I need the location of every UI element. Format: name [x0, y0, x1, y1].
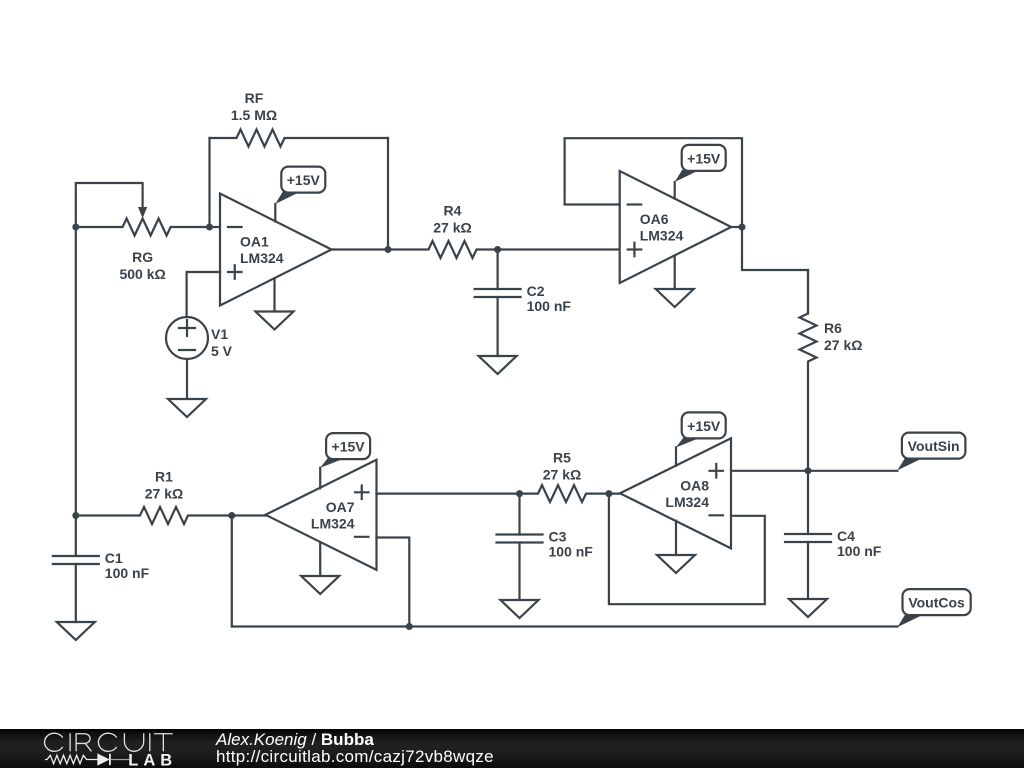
ground OA6 [656, 289, 694, 307]
value R4 27 k&#937; [433, 220, 471, 236]
svg-text:+15V: +15V [687, 418, 721, 434]
label C4 [837, 528, 855, 544]
value C1 100 nF [105, 565, 150, 581]
ground C2 [479, 356, 517, 374]
svg-text:1.5 MΩ: 1.5 MΩ [231, 107, 277, 123]
power flag +15V OA8 [676, 412, 726, 447]
potentiometer RG [76, 219, 210, 236]
value R1 27 k&#937; [145, 486, 183, 502]
svg-text:OA8: OA8 [680, 477, 709, 493]
net flag VoutCos [897, 589, 970, 627]
svg-text:R6: R6 [824, 320, 842, 336]
svg-text:RG: RG [132, 249, 153, 265]
svg-text:100 nF: 100 nF [549, 544, 594, 560]
wire OA6 Vplus pin [674, 182, 676, 199]
wire OA7 plus input [377, 493, 520, 495]
label R5 [553, 450, 571, 466]
svg-text:27 kΩ: 27 kΩ [433, 220, 471, 236]
svg-text:VoutCos: VoutCos [908, 595, 965, 611]
value C2 100 nF [527, 298, 572, 314]
wire OA1 minus input [210, 226, 221, 228]
op-amp OA1 [220, 194, 332, 306]
svg-text:OA1: OA1 [240, 234, 269, 250]
node junction OA7-minus-join [406, 623, 413, 630]
footer url [216, 747, 494, 766]
svg-text:LM324: LM324 [240, 250, 284, 266]
label C1 [105, 550, 123, 566]
value V1 5 V [211, 343, 233, 359]
value C4 100 nF [837, 543, 882, 559]
svg-text:27 kΩ: 27 kΩ [145, 486, 183, 502]
resistor R1 [76, 507, 266, 524]
label RF [245, 90, 264, 106]
label R1 [155, 469, 173, 485]
node junction RG-right [206, 224, 213, 231]
svg-text:100 nF: 100 nF [105, 565, 150, 581]
ground V1 [168, 399, 206, 417]
node junction OA6-out [739, 224, 746, 231]
power flag +15V OA1 [275, 167, 325, 204]
svg-text:5 V: 5 V [211, 343, 233, 359]
svg-text:500 kΩ: 500 kΩ [119, 266, 165, 282]
resistor R6 [800, 270, 817, 471]
voltage source V1 [166, 317, 208, 359]
svg-text:+15V: +15V [332, 439, 366, 455]
svg-text:C3: C3 [549, 529, 567, 545]
node junction R5-OA8out [605, 490, 612, 497]
node junction C3 [516, 490, 523, 497]
resistor R5 [520, 485, 621, 502]
svg-text:V1: V1 [211, 326, 228, 342]
ground OA1 [256, 312, 294, 330]
svg-text:27 kΩ: 27 kΩ [824, 337, 862, 353]
wire OA6 output [731, 226, 742, 228]
svg-text:R1: R1 [155, 469, 173, 485]
net flag VoutSin [897, 433, 965, 471]
value C3 100 nF [549, 544, 594, 560]
capacitor C2 [475, 250, 521, 357]
wire V1 to OA1 plus [187, 272, 220, 317]
value R6 27 k&#937; [824, 337, 862, 353]
value RF 1.5 M&#937; [231, 107, 277, 123]
wire OA8 Vminus pin [675, 521, 677, 555]
wire RG wiper loop [76, 183, 143, 227]
svg-text:LM324: LM324 [665, 494, 709, 510]
wire OA1 Vminus pin [273, 278, 275, 311]
wire OA1 Vplus pin [274, 204, 276, 222]
svg-text:100 nF: 100 nF [837, 543, 882, 559]
svg-text:R5: R5 [553, 450, 571, 466]
svg-text:C2: C2 [527, 283, 545, 299]
wire OA6 feedback [565, 138, 742, 227]
label C2 [527, 283, 545, 299]
node junction R1-fb [228, 512, 235, 519]
CircuitLab logo resistor-diode glyph [45, 754, 129, 765]
svg-text:C4: C4 [837, 528, 855, 544]
resistor R4 [388, 241, 498, 258]
wire RF right leg [387, 138, 389, 250]
label RG [132, 249, 153, 265]
CircuitLab logo LAB [128, 751, 177, 769]
svg-text:LM324: LM324 [311, 515, 355, 531]
wire VoutCos rail [232, 625, 898, 627]
wire RF left leg [208, 138, 210, 227]
potentiometer RG arrow [138, 207, 147, 218]
power flag +15V OA7 [320, 433, 370, 468]
ground OA7 [301, 576, 339, 594]
wire OA7 Vplus pin [319, 468, 321, 489]
ground C3 [501, 600, 539, 618]
svg-text:OA7: OA7 [326, 499, 355, 515]
svg-text:27 kΩ: 27 kΩ [543, 467, 581, 483]
node junction VoutSin [805, 467, 812, 474]
node junction rail-R1 [72, 512, 79, 519]
label R6 [824, 320, 842, 336]
node junction RG-left [72, 224, 79, 231]
wire left rail [75, 227, 77, 516]
value RG 500 k&#937; [119, 266, 165, 282]
capacitor C3 [497, 494, 543, 600]
wire OA1 output [332, 248, 389, 250]
svg-text:VoutSin: VoutSin [908, 438, 960, 454]
svg-text:100 nF: 100 nF [527, 298, 572, 314]
wire OA8 plus to VoutSin [731, 470, 897, 472]
label C3 [549, 529, 567, 545]
footer bar [0, 729, 1024, 768]
wire OA7 fb drop [231, 516, 233, 627]
svg-text:R4: R4 [444, 203, 462, 219]
ground C1 [57, 622, 95, 640]
svg-text:+15V: +15V [287, 172, 321, 188]
svg-text:RF: RF [245, 90, 264, 106]
label V1 [211, 326, 228, 342]
wire V1 bottom [186, 359, 188, 399]
ground OA8 [657, 555, 695, 573]
capacitor C1 [53, 516, 99, 623]
svg-text:http://circuitlab.com/cazj72vb: http://circuitlab.com/cazj72vb8wqze [216, 747, 494, 766]
op-amp OA7 [266, 460, 377, 570]
wire OA7 Vminus pin [319, 543, 321, 576]
value R5 27 k&#937; [543, 467, 581, 483]
wire OA6 out to R6 [742, 227, 808, 314]
CircuitLab logo CIRCUIT (drawn letters) [45, 733, 173, 751]
svg-text:LM324: LM324 [640, 228, 684, 244]
svg-text:C1: C1 [105, 550, 123, 566]
op-amp OA6 [620, 171, 732, 283]
capacitor C4 [785, 471, 831, 599]
svg-text:LAB: LAB [128, 751, 177, 768]
wire C2 node to OA6 plus [498, 248, 620, 250]
node junction R4-C2 [494, 246, 501, 253]
wire OA7 minus loop [377, 538, 410, 627]
label R4 [444, 203, 462, 219]
wire OA8 Vplus pin [675, 447, 677, 465]
wire OA6 Vminus pin [674, 256, 676, 290]
op-amp OA8 [620, 438, 731, 548]
power flag +15V OA6 [675, 145, 726, 182]
svg-text:OA6: OA6 [640, 211, 669, 227]
ground C4 [789, 599, 827, 617]
wire OA8 minus feedback [609, 494, 765, 605]
svg-text:+15V: +15V [687, 150, 721, 166]
footer author/title [215, 730, 374, 749]
resistor RF [210, 130, 389, 147]
node junction OA1-out [385, 246, 392, 253]
